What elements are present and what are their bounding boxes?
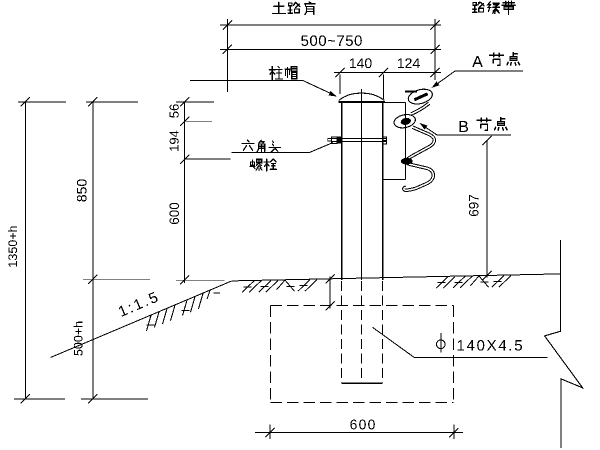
ground extension segments bbox=[83, 279, 150, 281]
slope hatch marks bbox=[147, 315, 152, 331]
w-beam lower wave bbox=[404, 127, 434, 190]
leader phi 140X4.5 bbox=[373, 327, 548, 357]
hex bolt tip bbox=[328, 139, 332, 141]
dimension text 697 bbox=[469, 195, 479, 216]
pipe spec text 140X4.5 bbox=[458, 340, 522, 351]
dimension text 500~750 bbox=[301, 35, 362, 46]
label 柱帽 (post cap) bbox=[269, 67, 282, 80]
buried post left edge (dashed) bbox=[341, 281, 343, 383]
slope label 1:1.5 bbox=[118, 292, 159, 317]
post cap dome bbox=[339, 93, 385, 100]
dimension line 500~750 bbox=[220, 48, 441, 50]
foundation outline (dashed) bbox=[271, 305, 454, 307]
separator line y=121 bbox=[185, 120, 212, 122]
label 螺栓 (bolt) bbox=[250, 159, 262, 170]
dimension text 56 bbox=[170, 104, 179, 117]
post left edge bbox=[341, 103, 343, 280]
extension line x=340 bbox=[339, 75, 341, 95]
label 土路肩 (earth shoulder) bbox=[272, 2, 315, 14]
post right edge bbox=[382, 103, 384, 280]
dimension text 140 bbox=[350, 58, 372, 68]
extension line left x=227 bbox=[226, 19, 228, 92]
hex bolt shaft through post bbox=[332, 137, 387, 139]
dimension line top (soil shoulder extent) bbox=[220, 24, 441, 26]
buried post center line (dashed) bbox=[361, 281, 363, 378]
slope line 1:1.5 bbox=[51, 281, 232, 358]
post cap base plate bbox=[339, 101, 385, 103]
dimension text 194 bbox=[170, 131, 179, 151]
separator line y=159 bbox=[185, 158, 231, 160]
bolt head at node B bbox=[400, 117, 412, 126]
hex bolt head bbox=[332, 137, 337, 143]
post bottom bbox=[342, 382, 383, 384]
spacer bracket right edge bbox=[405, 103, 407, 180]
dimension text 1350+h bbox=[8, 226, 17, 266]
dimension text 850 bbox=[77, 179, 87, 201]
spacer bracket bottom bbox=[383, 178, 406, 180]
dimension text 124 bbox=[398, 58, 420, 68]
dimension line 850 / 500+h bbox=[92, 102, 94, 399]
leader 柱帽 bbox=[190, 80, 303, 82]
dimension text 500+h bbox=[73, 322, 82, 356]
label A 节点 bbox=[472, 56, 483, 67]
buried post right edge (dashed) bbox=[382, 281, 384, 383]
w-beam strip A to B bbox=[411, 103, 429, 114]
dimension text 600 (bottom) bbox=[350, 420, 374, 430]
hex nut right bbox=[383, 137, 387, 144]
soil hatch group right bbox=[436, 277, 448, 289]
label 六角头 (hex head) bbox=[242, 140, 254, 150]
bottom dimension 600 bbox=[269, 425, 271, 440]
bottom extension segments y=399 bbox=[14, 398, 65, 400]
extension line x=383.5 bbox=[383, 75, 385, 100]
label 路缘带 (curb strip) bbox=[473, 1, 515, 14]
dimension line 140 / 124 bbox=[334, 72, 441, 74]
cover depth dimension bbox=[329, 277, 331, 309]
bolt bar inside node A bbox=[414, 94, 427, 100]
leader 六角头螺栓 bbox=[232, 151, 310, 153]
phi symbol bbox=[437, 340, 446, 349]
bolt dot on lower wave bbox=[401, 158, 413, 165]
extension line right x=435 bbox=[434, 19, 436, 80]
w-beam top edge bbox=[405, 90, 417, 92]
dimension line 697 bbox=[486, 140, 488, 278]
break line bbox=[545, 240, 583, 448]
soil hatch group left bbox=[242, 281, 254, 293]
spacer bracket top bbox=[384, 102, 406, 104]
ground line bbox=[232, 274, 561, 281]
leader B bbox=[437, 134, 511, 136]
post center line bbox=[361, 89, 363, 280]
extension segments at top of post level y=102 bbox=[18, 101, 66, 103]
w-beam curl ellipse (node B) bbox=[393, 113, 417, 130]
dimension text 600 (left) bbox=[169, 203, 179, 224]
w-beam top curl ellipse (node A) bbox=[407, 87, 434, 107]
label B 节点 bbox=[459, 121, 468, 132]
leader A bbox=[455, 70, 523, 72]
dimension line 1350+h bbox=[24, 102, 26, 399]
dimension line 56/194/600 bbox=[184, 102, 186, 283]
